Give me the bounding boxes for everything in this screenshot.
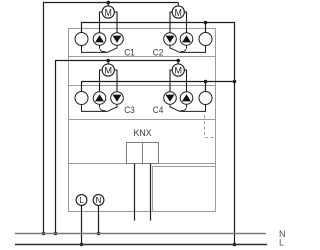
wire N feed row 1 <box>44 3 179 234</box>
svg-text:C2: C2 <box>153 47 164 58</box>
KNX bus terminal block <box>127 143 159 164</box>
device outline (actuator body) <box>69 29 216 212</box>
node junction M4 top <box>176 59 180 63</box>
node junction M1 top <box>106 1 110 5</box>
svg-text:L: L <box>79 196 84 205</box>
contact C4 changeover <box>170 104 206 111</box>
node junction C4 common <box>204 80 208 84</box>
node junction C2 common <box>204 21 208 25</box>
wire L terminal to L line <box>81 205 83 244</box>
svg-text:N: N <box>96 196 102 205</box>
terminal N <box>93 195 104 206</box>
node junction feeder row 2 <box>233 80 237 84</box>
contact C1 changeover <box>82 45 118 52</box>
svg-text:M: M <box>105 8 112 19</box>
svg-text:C4: C4 <box>153 105 164 116</box>
terminal C1 down <box>111 33 124 46</box>
svg-text:M: M <box>104 65 112 75</box>
svg-text:M: M <box>174 65 182 75</box>
contact C3 changeover <box>82 104 118 111</box>
terminal C4 down <box>164 92 177 105</box>
contact C2 changeover <box>170 45 206 52</box>
terminal C3 down <box>111 92 124 105</box>
terminal C4 up <box>180 92 193 105</box>
wire N terminal to N line <box>98 205 100 233</box>
wire L feed row 2 <box>82 82 235 92</box>
motor M3 <box>100 61 118 92</box>
wire KNX bus 2 <box>150 164 152 221</box>
terminal C3 common <box>75 92 88 105</box>
wire L feed row 1 and feeder <box>82 23 235 245</box>
terminal C2 common <box>199 33 212 46</box>
node junction N stem <box>97 232 101 236</box>
terminal C4 common <box>199 92 212 105</box>
wire stem C2 common <box>205 23 207 33</box>
wire stem C4 common <box>205 82 207 92</box>
net L mains line <box>15 244 267 246</box>
node junction L stem <box>80 243 84 247</box>
motor M2 <box>170 3 187 33</box>
svg-text:L: L <box>279 238 284 248</box>
svg-text:M: M <box>175 8 182 19</box>
node junction M3 top <box>106 59 110 63</box>
terminal C3 up <box>93 92 106 105</box>
terminal C2 up <box>180 33 193 46</box>
motor M4 <box>170 61 187 92</box>
node junction wire2 on N line <box>54 232 58 236</box>
node junction wire1 on N line <box>42 232 46 236</box>
wire N feed row 2 <box>56 61 179 234</box>
dashed manual link <box>205 116 216 138</box>
terminal L <box>76 195 87 206</box>
svg-text:C1: C1 <box>124 47 135 58</box>
terminal C1 up <box>93 33 106 46</box>
node junction feeder on L line <box>233 243 237 247</box>
motor M1 <box>100 3 118 33</box>
wire KNX bus 1 <box>134 164 136 221</box>
terminal C2 down <box>164 33 177 46</box>
net N mains line <box>15 233 266 235</box>
svg-text:KNX: KNX <box>133 128 151 138</box>
terminal C1 common <box>75 33 88 46</box>
svg-text:C3: C3 <box>124 105 135 116</box>
